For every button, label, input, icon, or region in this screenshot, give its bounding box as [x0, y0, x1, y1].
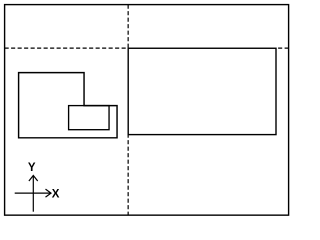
- left step-shaped outline: [19, 73, 117, 138]
- svg-text:X: X: [52, 189, 60, 201]
- sheet border: [5, 5, 289, 216]
- UCS icon X-axis shaft: [15, 192, 51, 194]
- svg-text:Y: Y: [28, 162, 36, 174]
- UCS icon Y-axis shaft: [32, 176, 34, 212]
- vertical dashed construction line top segment: [127, 5, 129, 49]
- UCS icon Y-axis arrowhead: [29, 176, 38, 182]
- horizontal dashed construction line left segment: [5, 47, 129, 49]
- UCS icon X-axis arrowhead: [46, 189, 52, 197]
- right viewport rectangle: [128, 48, 276, 134]
- small inner rectangle: [69, 106, 109, 130]
- horizontal dashed construction line right segment: [278, 47, 289, 49]
- vertical dashed construction line bottom segment: [127, 134, 129, 216]
